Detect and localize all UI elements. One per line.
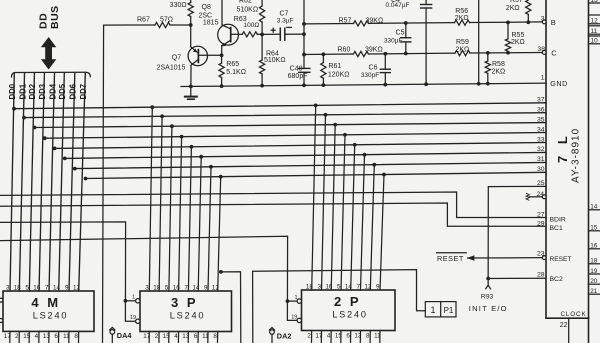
svg-text:Q7: Q7 [172, 55, 181, 62]
wire RESET to AY pin 23 [468, 257, 543, 259]
wire DD6 riser to 2P pin 12 [370, 165, 374, 290]
wire DD5 riser to 2P pin 7 [361, 155, 365, 290]
svg-text:R56: R56 [455, 8, 468, 15]
wire DD2 riser to 3P pin 5 [169, 126, 172, 291]
svg-text:15: 15 [590, 225, 598, 232]
svg-text:17: 17 [315, 333, 323, 340]
svg-text:3 P: 3 P [171, 295, 198, 310]
svg-text:P1: P1 [444, 306, 454, 315]
resistor R67 57ohm [104, 24, 155, 26]
wire GND rail to AY pin 1 [181, 83, 546, 86]
wire DD1 riser to 3P pin 18 [159, 116, 162, 291]
wire DD6 to AY pin 31 [75, 162, 546, 168]
wire DD3 riser to 2P pin 5 [341, 135, 345, 290]
svg-text:DD0: DD0 [8, 83, 17, 99]
wire DD2 to AY pin 35 [35, 123, 547, 128]
node pin 24 no-connect squiggle [526, 193, 529, 200]
svg-text:24: 24 [536, 191, 544, 198]
wire channel B mix rail with R57, R56 [304, 22, 354, 24]
svg-text:39KΩ: 39KΩ [365, 47, 383, 54]
wire DD3 riser to 3P pin 16 [179, 137, 182, 291]
svg-text:R58: R58 [492, 61, 505, 68]
svg-text:28: 28 [537, 272, 545, 279]
wire DD7 riser to 2P pin 9 [380, 175, 384, 291]
node right connector cells [589, 2, 600, 4]
resistor R64 510K [261, 34, 263, 60]
svg-text:17: 17 [4, 333, 12, 340]
svg-text:16: 16 [33, 284, 41, 291]
svg-text:1: 1 [541, 74, 545, 81]
svg-text:BUS: BUS [49, 5, 61, 29]
svg-text:18: 18 [590, 258, 598, 265]
svg-text:2: 2 [307, 333, 311, 340]
svg-text:7: 7 [45, 284, 49, 291]
ground symbol [190, 86, 192, 96]
node enable bubbles 3P [136, 299, 140, 303]
svg-text:2KΩ: 2KΩ [506, 5, 520, 12]
wire DD6 riser to 3P pin 9 [208, 167, 211, 291]
transistor Q7 2SA1015 [188, 46, 207, 65]
svg-text:RESET: RESET [437, 254, 464, 263]
wire bus line DD1 vertical [19, 74, 24, 292]
svg-text:2 P: 2 P [334, 294, 361, 309]
svg-text:C5: C5 [396, 30, 405, 37]
svg-text:25: 25 [537, 180, 545, 187]
svg-text:DD2: DD2 [28, 83, 37, 99]
wire DD3 to AY pin 34 [45, 133, 546, 139]
svg-text:39KΩ: 39KΩ [366, 17, 384, 24]
wire DD5 riser to 3P pin 14 [198, 157, 201, 291]
svg-text:C40: C40 [290, 66, 303, 73]
wire BC1 from left edge to AY pin 29 [0, 203, 546, 226]
svg-text:3: 3 [541, 16, 545, 23]
resistor R57 2K channel A pulldown [526, 0, 531, 14]
svg-text:20: 20 [590, 278, 598, 285]
svg-text:1815: 1815 [203, 20, 219, 27]
wire DD7 riser to 3P pin 12 [218, 177, 221, 291]
svg-text:1: 1 [132, 295, 135, 301]
svg-text:34: 34 [537, 126, 545, 133]
svg-text:LS240: LS240 [33, 310, 69, 320]
wire enable to 3P pins 1,19 [0, 222, 136, 321]
svg-text:680pF: 680pF [288, 73, 308, 80]
junction dots 2P risers [314, 104, 318, 108]
wire DD7 to AY pin 30 [86, 172, 547, 178]
svg-text:33: 33 [537, 136, 545, 143]
svg-text:8: 8 [74, 333, 78, 340]
svg-text:R57: R57 [339, 17, 352, 24]
resistor R59 2K [455, 51, 470, 56]
svg-text:510KΩ: 510KΩ [237, 6, 259, 13]
svg-text:DA4: DA4 [117, 331, 133, 340]
wire DD4 riser to 3P pin 7 [188, 147, 191, 291]
svg-text:R60: R60 [338, 47, 351, 54]
wire bus line DD6 vertical [69, 74, 75, 292]
wire bus line DD2 vertical [29, 74, 34, 292]
svg-text:5: 5 [337, 284, 341, 291]
svg-text:2: 2 [155, 333, 159, 340]
wire 4M bottom pins [9, 331, 11, 343]
svg-text:9: 9 [376, 284, 380, 291]
svg-text:DD5: DD5 [58, 83, 67, 99]
svg-text:6: 6 [54, 333, 58, 340]
svg-text:11: 11 [202, 333, 209, 340]
wire bus line DD4 vertical [49, 74, 55, 292]
svg-text:RESET: RESET [550, 256, 572, 263]
node DA2 connector pin [270, 330, 275, 335]
capacitor C6 330pF [384, 54, 386, 69]
wire AY pin 28 BC2 [488, 277, 546, 279]
svg-text:38: 38 [537, 46, 545, 53]
svg-text:9: 9 [65, 284, 69, 291]
svg-text:19: 19 [291, 314, 297, 320]
node DD BUS arrow [41, 37, 56, 70]
svg-text:16: 16 [173, 284, 181, 291]
svg-text:R67: R67 [137, 17, 150, 24]
svg-text:3: 3 [317, 284, 321, 291]
svg-text:14: 14 [590, 204, 598, 211]
wire Q7 base to node [198, 54, 221, 56]
svg-text:2KΩ: 2KΩ [492, 68, 506, 75]
resistor R58 2K [487, 53, 489, 61]
svg-text:14: 14 [53, 284, 61, 291]
svg-text:13: 13 [182, 333, 190, 340]
node RESET arrowhead [467, 255, 475, 261]
wire channel C mix rail with R60, R59 [304, 53, 353, 55]
svg-text:Q8: Q8 [202, 4, 211, 11]
svg-text:BC2: BC2 [550, 276, 563, 283]
svg-text:DD: DD [38, 13, 50, 29]
svg-text:4: 4 [174, 333, 178, 340]
svg-text:19: 19 [590, 268, 598, 275]
svg-text:3.3µF: 3.3µF [277, 17, 294, 24]
svg-text:5: 5 [25, 284, 29, 291]
svg-text:2: 2 [15, 333, 19, 340]
svg-text:9: 9 [204, 284, 208, 291]
svg-text:INIT E/O: INIT E/O [469, 304, 508, 313]
svg-text:32: 32 [537, 146, 545, 153]
svg-text:B: B [551, 18, 556, 27]
svg-text:36: 36 [537, 107, 545, 114]
svg-text:13: 13 [354, 333, 362, 340]
svg-text:29: 29 [537, 220, 545, 227]
resistor R55 2K [507, 22, 509, 38]
svg-text:2KΩ: 2KΩ [511, 39, 525, 46]
wire supply vertical [478, 0, 480, 84]
svg-text:DD6: DD6 [69, 83, 78, 99]
wire DD1 to AY pin 36 [24, 113, 546, 118]
svg-text:15: 15 [163, 333, 171, 340]
svg-text:7: 7 [356, 284, 360, 291]
svg-text:37: 37 [537, 97, 545, 104]
svg-text:6: 6 [194, 333, 198, 340]
svg-text:R65: R65 [226, 61, 239, 68]
svg-text:C: C [551, 49, 557, 58]
wire to connector P1 [253, 270, 426, 343]
svg-text:16: 16 [325, 284, 333, 291]
svg-text:30: 30 [537, 166, 545, 173]
svg-text:DD1: DD1 [18, 83, 27, 99]
svg-text:10: 10 [591, 38, 599, 45]
svg-text:15: 15 [23, 333, 31, 340]
svg-text:8: 8 [213, 333, 217, 340]
svg-text:LS240: LS240 [170, 310, 206, 320]
svg-text:5: 5 [165, 284, 169, 291]
wire DD1 riser to 2P pin 3 [322, 115, 326, 290]
svg-text:1: 1 [430, 305, 435, 315]
svg-text:17: 17 [143, 333, 151, 340]
svg-text:4 M: 4 M [31, 295, 60, 310]
wire DD0 riser to 3P pin 3 [149, 107, 152, 291]
svg-text:3: 3 [145, 284, 149, 291]
svg-text:15: 15 [335, 333, 343, 340]
svg-text:18: 18 [14, 284, 22, 291]
svg-text:R62: R62 [239, 0, 252, 4]
svg-text:2SC: 2SC [199, 12, 213, 19]
svg-text:R59: R59 [456, 39, 469, 46]
resistor 330ohm [190, 0, 192, 3]
wire bus line DD3 vertical [39, 74, 44, 292]
ic 4M LS240 box [3, 291, 94, 331]
svg-text:21: 21 [590, 288, 598, 295]
svg-text:R55: R55 [512, 32, 525, 39]
junction dots control [124, 299, 128, 303]
svg-text:100Ω: 100Ω [244, 22, 260, 29]
resistor R63 100ohm [232, 33, 243, 35]
svg-text:35: 35 [537, 116, 545, 123]
svg-text:0.047µF: 0.047µF [386, 2, 410, 9]
svg-text:LS240: LS240 [332, 310, 368, 320]
wire audio input vertical [103, 25, 104, 343]
ic 3P LS240 box [140, 291, 232, 332]
svg-text:12: 12 [591, 18, 599, 25]
svg-text:12: 12 [73, 284, 81, 291]
wire AY pin 25 down to R93 [488, 186, 546, 285]
svg-text:12: 12 [364, 284, 372, 291]
svg-text:14: 14 [192, 284, 200, 291]
svg-text:13: 13 [591, 0, 599, 4]
wire bus line DD7 vertical [79, 74, 86, 292]
svg-text:7 L: 7 L [555, 132, 570, 163]
svg-text:1: 1 [294, 295, 297, 301]
wire DD0 riser to 2P pin 18 [312, 105, 316, 290]
svg-text:6: 6 [346, 333, 350, 340]
transistor Q8 2SC1815 [218, 24, 239, 45]
capacitor C40 680pF [303, 54, 305, 68]
svg-text:4: 4 [35, 333, 39, 340]
svg-text:12: 12 [212, 284, 220, 291]
svg-text:DA2: DA2 [277, 331, 292, 340]
wire bus line DD0 vertical [10, 74, 14, 292]
svg-text:GND: GND [550, 79, 567, 88]
wire CLOCK pin 22 [568, 318, 570, 343]
svg-text:R61: R61 [328, 63, 341, 70]
svg-text:DD4: DD4 [48, 83, 57, 99]
svg-text:330Ω: 330Ω [170, 2, 187, 9]
svg-text:330pF: 330pF [361, 72, 379, 79]
wire 3P bottom pins [148, 332, 150, 343]
svg-text:CLOCK: CLOCK [561, 311, 587, 318]
svg-text:2KΩ: 2KΩ [456, 47, 470, 54]
svg-text:R93: R93 [481, 293, 494, 300]
svg-text:AY-3-8910: AY-3-8910 [571, 128, 582, 183]
wire summing node vertical [303, 0, 305, 54]
ic 2P LS240 box [302, 290, 396, 331]
svg-text:23: 23 [537, 250, 545, 257]
svg-text:11: 11 [374, 333, 381, 340]
node 4M pins 1,19 bubbles at edge [0, 298, 3, 302]
svg-text:R57: R57 [510, 0, 523, 4]
svg-text:BDIR: BDIR [550, 216, 566, 223]
wire enable to 2P pins 1,19 [0, 236, 297, 320]
wire BDIR from left edge to AY pin 27 [0, 192, 546, 218]
capacitor C7 3.3uF [262, 33, 280, 35]
svg-text:57Ω: 57Ω [160, 17, 173, 24]
svg-text:11: 11 [591, 28, 598, 35]
wire DD0 to AY pin 37 [14, 103, 546, 109]
svg-text:31: 31 [537, 156, 545, 163]
svg-text:330µF: 330µF [384, 38, 403, 45]
node DA4 connector pin [110, 330, 115, 335]
svg-text:120KΩ: 120KΩ [328, 72, 350, 79]
svg-text:8: 8 [366, 333, 370, 340]
node connector P1 [425, 302, 456, 317]
svg-text:DD7: DD7 [79, 84, 88, 100]
junction dots 3P risers [150, 105, 154, 109]
svg-text:7: 7 [184, 284, 188, 291]
svg-text:18: 18 [306, 284, 314, 291]
junction dots analog [189, 23, 193, 27]
svg-text:18: 18 [153, 284, 161, 291]
svg-text:5.1KΩ: 5.1KΩ [226, 69, 246, 76]
svg-text:510KΩ: 510KΩ [264, 57, 286, 64]
resistor R57 39K [354, 21, 369, 26]
resistor R56 2K [455, 20, 470, 25]
resistor R93 jumper caret [486, 285, 491, 289]
wire 3P pin12 tap down to bottom edge [221, 272, 241, 343]
svg-text:2SA1015: 2SA1015 [157, 65, 186, 72]
wire bus line DD5 vertical [59, 74, 65, 292]
svg-text:DD3: DD3 [38, 83, 47, 99]
wire 2P bottom pins [311, 331, 313, 343]
svg-text:3: 3 [6, 284, 10, 291]
svg-text:27: 27 [537, 212, 545, 219]
wire AY pin 24 stub [529, 196, 542, 198]
svg-text:16: 16 [590, 243, 598, 250]
capacitor C5 330pF [405, 23, 407, 38]
node DD bus bracket [12, 72, 91, 77]
svg-text:22: 22 [560, 322, 568, 329]
wire DD2 riser to 2P pin 16 [331, 125, 335, 290]
svg-text:C6: C6 [369, 64, 378, 71]
svg-text:11: 11 [63, 333, 70, 340]
svg-text:BC1: BC1 [550, 225, 563, 232]
resistor R62 510K [261, 0, 263, 6]
svg-text:4: 4 [327, 333, 331, 340]
node RESET overline [437, 252, 467, 254]
op-amp ic U-AY-3-8910 box edges [545, 0, 547, 318]
resistor R61 120K [322, 54, 324, 62]
wire DD5 to AY pin 32 [65, 152, 546, 158]
svg-text:19: 19 [130, 315, 136, 321]
junction dots bus staircase [12, 107, 16, 111]
svg-text:13: 13 [43, 333, 51, 340]
wire DD4 to AY pin 33 [55, 143, 546, 149]
resistor R60 39K [353, 51, 368, 56]
svg-text:2KΩ: 2KΩ [455, 15, 469, 22]
resistor R65 5.1K [221, 55, 223, 63]
node enable bubbles 2P [297, 299, 301, 303]
wire DD4 riser to 2P pin 14 [351, 145, 355, 290]
node AY pin bubbles [542, 20, 546, 24]
capacitor C4 0.047uF [425, 0, 427, 5]
svg-text:14: 14 [345, 284, 353, 291]
